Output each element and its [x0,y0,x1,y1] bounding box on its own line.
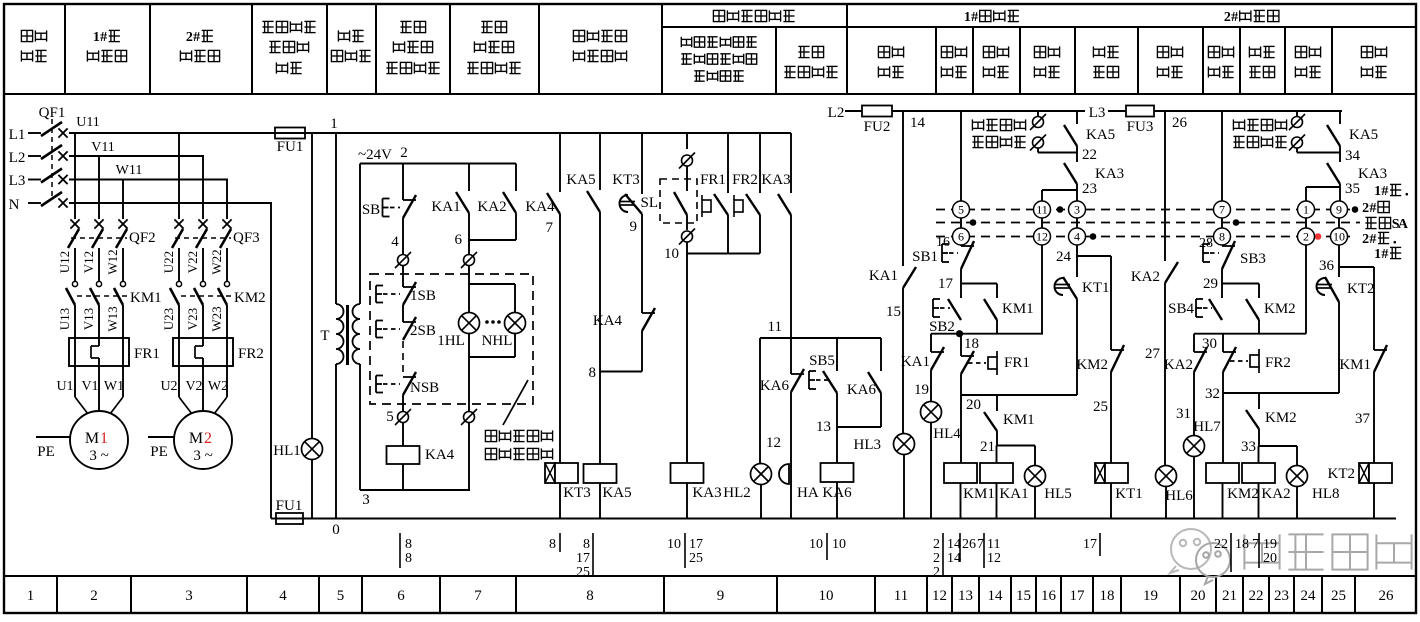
node 34 bar [1297,152,1340,154]
SA contact circle 10 [1331,228,1348,245]
continuation dash line between 2SB and NSB [402,341,404,376]
svg-text:W12: W12 [105,249,120,274]
svg-text:15: 15 [1016,588,1031,604]
motor M1 feed wires [74,366,76,372]
KA1 stop-indication branch wire 14 [902,111,904,266]
contactor NC KM2 interlock for KT1 [1110,256,1112,350]
svg-text:11: 11 [1036,203,1048,217]
pushbutton SB3 stop pump2 [1222,245,1235,247]
svg-text:FR2: FR2 [1265,355,1291,371]
HL1 branch wire [311,133,313,438]
SA row C dot mid [1090,233,1097,240]
svg-text:V22: V22 [185,251,200,273]
svg-text:KA5: KA5 [1086,127,1115,143]
QF2 feeder taps [74,133,76,219]
svg-text:6: 6 [958,230,964,244]
svg-text:23: 23 [1082,181,1097,197]
svg-text:U1: U1 [56,379,73,394]
svg-text:1: 1 [27,588,35,604]
contactor main contacts KM1 [72,281,77,286]
pushbutton 2SB [402,305,404,322]
svg-text:L3: L3 [9,173,26,189]
svg-text:33: 33 [1241,439,1256,455]
svg-text:KM1: KM1 [1003,412,1035,428]
node 29 bar [1222,283,1259,285]
svg-text:25: 25 [689,551,703,566]
svg-text:1: 1 [93,30,100,45]
header column lines [64,4,66,94]
transformer secondary top [359,164,361,305]
PE terminal of M1 [36,436,70,438]
ellipsis dots between lamps [485,320,489,324]
bracket over circles 1 9 [1306,186,1340,188]
svg-text:12: 12 [1036,230,1048,244]
svg-text:KA3: KA3 [1358,166,1387,182]
fire control center terminals pump1 [971,119,973,130]
svg-text:W11: W11 [116,163,143,178]
note: installed in hydrant boxes of each floor [485,430,496,441]
circuit breaker QF3 [174,219,183,228]
svg-text:FR2: FR2 [238,346,264,362]
svg-text:6: 6 [397,588,405,604]
svg-text:FR1: FR1 [1004,355,1030,371]
svg-text:HL7: HL7 [1193,419,1221,435]
svg-text:KM2: KM2 [234,290,266,306]
header sub column lines [775,27,777,94]
SA contact circle 3 [1069,201,1086,218]
svg-text:27: 27 [1145,346,1161,362]
svg-text:8: 8 [549,537,556,552]
wire from 12 down to node 18 [1041,245,1043,334]
SA row B dot right [1233,219,1240,226]
svg-text:FU3: FU3 [1127,119,1154,135]
svg-text:NSB: NSB [410,380,439,396]
relay coil KA2 [1258,446,1260,463]
svg-text:KA4: KA4 [425,447,455,463]
svg-text:KA1: KA1 [869,268,898,284]
svg-text:9: 9 [630,219,638,235]
svg-text:PE: PE [150,444,168,460]
svg-text:HL5: HL5 [1044,486,1072,502]
svg-text:13: 13 [958,588,973,604]
selector SA dashed row B [936,222,1360,224]
drop from FU3 to SA contacts 7 8 [1221,111,1223,201]
svg-text:N: N [9,197,20,213]
svg-text:KA6: KA6 [847,382,877,398]
svg-text:A: A [1398,217,1409,232]
svg-text:KA3: KA3 [761,172,790,188]
lamp HL3 [894,434,915,455]
terminal on wire 5 [398,412,409,423]
svg-text:KA1: KA1 [999,486,1028,502]
terminal below lamps [464,412,475,423]
relay coil KA6 [836,427,838,463]
svg-text:T: T [320,328,329,344]
svg-text:~24V: ~24V [358,147,392,163]
svg-text:FR2: FR2 [732,172,758,188]
svg-text:11: 11 [768,319,782,335]
svg-text:KA2: KA2 [1261,486,1290,502]
pushbutton SB4 start pump2 [1221,284,1223,299]
svg-text:36: 36 [1319,258,1335,274]
svg-text:HL4: HL4 [933,426,961,442]
SA contact circle 2 [1298,228,1315,245]
svg-text:26: 26 [1379,588,1395,604]
svg-text:W22: W22 [209,249,224,274]
SA row B dot [970,219,977,226]
svg-text:L2: L2 [9,150,26,166]
svg-text:KM2: KM2 [1076,357,1108,373]
svg-text:0: 0 [332,522,340,538]
svg-text:KA1: KA1 [431,199,460,215]
SA contact circle 12 [1034,228,1051,245]
fire hydrant dashed enclosure box [370,274,533,404]
svg-text:8: 8 [586,588,594,604]
svg-text:KA1: KA1 [901,354,930,370]
time delayed contact KT1 [1076,256,1078,277]
svg-text:L2: L2 [828,105,845,121]
svg-text:U2: U2 [160,379,177,394]
svg-text:10: 10 [809,537,823,552]
svg-text:L1: L1 [9,127,26,143]
svg-text:10: 10 [1333,230,1345,244]
svg-text:#: # [1381,184,1388,199]
24V bus [360,163,516,165]
lamp feed bar in hydrant box [469,283,515,285]
svg-text:34: 34 [1345,148,1361,164]
node 18 junction dot [956,330,963,337]
svg-text:12: 12 [987,551,1001,566]
relay contact KA6 NC [790,338,792,374]
pushbutton SB2 start pump1 [960,284,962,299]
callout line to hydrant box note [503,380,528,425]
svg-text:10: 10 [819,588,834,604]
svg-text:U22: U22 [161,251,176,273]
lamp HL4 [921,402,942,423]
SA row C red dot [1315,233,1322,240]
svg-text:4: 4 [279,588,287,604]
svg-text:21: 21 [980,439,995,455]
svg-text:16: 16 [936,235,950,250]
circuit breaker QF2 [70,219,79,228]
watermark text dianGong zhi jia [1243,534,1245,569]
svg-text:PE: PE [37,444,55,460]
svg-text:11: 11 [987,537,1000,552]
svg-text:20: 20 [1263,551,1277,566]
contactor coil KM2 [1206,463,1239,483]
terminal on wire 4 [398,255,409,266]
time relay coil KT3 [545,463,555,483]
svg-text:#: # [193,30,200,45]
svg-text:2SB: 2SB [410,323,436,339]
svg-text:W2: W2 [208,379,228,394]
svg-text:1: 1 [1374,247,1381,262]
bottom control bus node 0 [271,518,1396,520]
svg-text:25: 25 [576,565,590,580]
svg-text:KT2: KT2 [1347,281,1375,297]
contactor aux contact KM1 self hold [996,284,998,299]
SA contact circle 9 [1331,201,1348,218]
svg-text:QF2: QF2 [129,230,156,246]
svg-text:12: 12 [932,588,947,604]
KA2 stop-indication branch wire 26 [1164,111,1166,261]
svg-text:19: 19 [1143,588,1158,604]
svg-text:HL6: HL6 [1165,488,1193,504]
QF3 feeder taps [178,133,180,219]
lamp 1HL [468,284,470,312]
svg-text:5: 5 [958,203,964,217]
svg-text:KM1: KM1 [1339,357,1371,373]
svg-text:22: 22 [1214,537,1228,552]
svg-text:M: M [85,430,99,447]
node 8 bar [600,371,642,373]
svg-text:M: M [189,430,203,447]
svg-text:U11: U11 [76,115,100,130]
relay coil KA1 [996,446,998,464]
svg-text:3: 3 [1074,203,1080,217]
svg-text:KA5: KA5 [602,485,631,501]
svg-text:24: 24 [1056,249,1072,265]
svg-text:KM1: KM1 [1002,301,1034,317]
svg-text:KT1: KT1 [1115,486,1143,502]
node 21 bar [997,445,1035,447]
svg-text:SB5: SB5 [809,353,835,369]
L1 bus wire [69,132,791,134]
fuse FU1 top [275,128,305,139]
join bar below KA1 KA2 [468,213,470,240]
svg-text:V12: V12 [81,251,96,273]
svg-text:2: 2 [400,145,408,161]
lamp HL7 [1184,436,1205,457]
svg-text:KT3: KT3 [563,485,591,501]
svg-text:V1: V1 [81,379,98,394]
svg-text:7: 7 [1252,537,1259,552]
svg-text:17: 17 [689,537,703,552]
node 24 bar [1077,255,1111,257]
header group: sound-light alarm loop [713,10,724,21]
thermal relay contact FR2 NC [1222,334,1224,352]
svg-text:L3: L3 [1089,105,1106,121]
svg-text:14: 14 [947,537,961,552]
SA contact circle 5 [953,201,970,218]
svg-text:SB4: SB4 [1168,301,1194,317]
svg-text:FU1: FU1 [276,498,303,514]
svg-text:8: 8 [405,551,412,566]
svg-text:18: 18 [964,336,979,352]
header cell labels [21,30,32,41]
svg-text:KM1: KM1 [963,486,995,502]
svg-text:12: 12 [766,435,781,451]
svg-text:HA: HA [797,485,819,501]
bottom number row top line [4,575,1416,577]
svg-text:8: 8 [1219,230,1225,244]
svg-text:KA5: KA5 [1349,127,1378,143]
svg-text:2: 2 [186,30,193,45]
lamp HL1 [302,439,323,460]
node 32 bar [1223,392,1339,394]
svg-text:7: 7 [977,537,984,552]
relay contact KA2 fault NC [1193,334,1195,352]
svg-text:10: 10 [832,537,846,552]
pushbutton SB [402,164,404,201]
pushbutton SB1 stop pump1 [960,245,962,246]
svg-text:29: 29 [1203,276,1218,292]
svg-text:#: # [1369,232,1376,247]
svg-text:U23: U23 [161,308,176,330]
svg-text:KA4: KA4 [525,199,555,215]
svg-text:FR1: FR1 [700,172,726,188]
header group split line [662,26,1416,28]
svg-text:SB2: SB2 [929,319,955,335]
svg-text:FU2: FU2 [864,119,891,135]
svg-text:SB: SB [362,202,380,218]
svg-text:SB1: SB1 [912,249,938,265]
SA contact circle 7 [1214,201,1231,218]
svg-text:8: 8 [583,537,590,552]
lamp HL8 [1296,446,1298,465]
svg-text:KM2: KM2 [1264,301,1296,317]
svg-text:30: 30 [1202,336,1217,352]
SA contact circle 8 [1214,228,1231,245]
watermark bubbles [1170,529,1211,573]
svg-text:#: # [100,30,107,45]
svg-text:17: 17 [576,551,590,566]
contactor NC KM1 interlock for KT2 [1373,267,1375,350]
svg-text:16: 16 [1041,588,1057,604]
svg-text:8: 8 [589,365,597,381]
svg-text:1: 1 [1303,203,1309,217]
svg-text:HL8: HL8 [1312,486,1340,502]
SA contact circle 1 [1298,201,1315,218]
svg-text:25: 25 [1331,588,1346,604]
PE terminal of M2 [148,436,174,438]
node 11 bar [760,337,881,339]
svg-text:W13: W13 [105,306,120,331]
svg-text:KA2: KA2 [1131,269,1160,285]
node 13 bar [837,426,881,428]
svg-text:17: 17 [938,276,954,292]
transformer primary bottom to node 0 [335,364,337,519]
svg-text:17: 17 [1083,537,1097,552]
node 20 bar [961,394,1077,396]
svg-text:2: 2 [204,430,212,447]
svg-text:3: 3 [185,588,193,604]
svg-text:KT1: KT1 [1082,280,1110,296]
svg-text:KM2: KM2 [1265,410,1297,426]
svg-text:KA2: KA2 [477,199,506,215]
svg-text:7: 7 [1219,203,1225,217]
main switch QF1 [28,132,41,134]
svg-text:14: 14 [988,588,1004,604]
svg-text:KM2: KM2 [1227,486,1259,502]
lamp HL5 [1034,446,1036,466]
svg-text:1: 1 [964,10,971,25]
svg-text:4: 4 [1074,230,1080,244]
relay contact KA3 pump2 auto [1327,163,1340,184]
thermal overload relay FR2 [173,338,233,366]
svg-text:U13: U13 [57,308,72,330]
lamp NHL [514,284,516,312]
wire from 10 to node 36 [1338,245,1340,267]
N wire [69,202,272,204]
svg-text:FU1: FU1 [277,139,304,155]
N drop to bottom bus [270,203,272,519]
svg-text:9: 9 [717,588,725,604]
svg-text:V2: V2 [185,379,202,394]
svg-text:4: 4 [391,234,399,250]
svg-text:#: # [1369,201,1376,216]
node 3 bus [360,489,470,491]
fuse FU1 bottom [276,513,303,524]
thermal overload relay FR1 [69,338,129,366]
svg-text:W23: W23 [209,306,224,331]
relay coil KA3 [671,463,704,483]
svg-text:SB3: SB3 [1240,251,1266,267]
svg-text:19: 19 [1263,537,1277,552]
svg-text:22: 22 [1249,588,1264,604]
svg-text:7: 7 [546,220,554,236]
horn HA [779,464,789,484]
node 17 bar [961,283,997,285]
svg-text:23: 23 [1274,588,1289,604]
node 36 bar [1339,266,1374,268]
svg-text:3 ~: 3 ~ [89,448,108,464]
bracket over circles 11 3 [1042,189,1077,191]
svg-text:KA2: KA2 [1164,357,1193,373]
svg-text:21: 21 [1222,588,1237,604]
relay contact KA1 24V [468,164,470,192]
contactor aux contact KM2 self hold [1258,284,1260,299]
water level signal branch with terminals [686,133,688,149]
svg-text:KT3: KT3 [612,172,640,188]
drop from FU2 to SA contacts 5 6 [960,111,962,201]
svg-text:2: 2 [1362,201,1369,216]
svg-text:2: 2 [933,551,940,566]
svg-text:KA5: KA5 [566,172,595,188]
fire control center terminals pump2 [1232,119,1234,130]
svg-text:KM1: KM1 [130,290,162,306]
svg-text:W1: W1 [104,379,124,394]
contactor main contacts KM2 [176,281,181,286]
svg-text:32: 32 [1205,386,1220,402]
svg-text:3: 3 [362,492,370,508]
SA row A dot mid [1057,206,1064,213]
svg-text:1: 1 [100,430,108,447]
svg-text:FR1: FR1 [134,346,160,362]
svg-text:35: 35 [1345,181,1360,197]
header sub cell labels [680,37,682,47]
svg-text:3 ~: 3 ~ [193,448,212,464]
relay contact KA5 pump2 auto [1339,111,1341,124]
svg-text:KT2: KT2 [1328,466,1356,482]
thermal relay contact FR1 NC [960,334,962,356]
svg-text:2: 2 [90,588,98,604]
svg-text:25: 25 [1093,399,1108,415]
fuse FU2 [845,110,862,112]
motor M1 [70,411,128,469]
svg-text:20: 20 [1191,588,1206,604]
contactor coil KM1 [944,463,977,483]
svg-text:37: 37 [1355,411,1371,427]
svg-text:1HL: 1HL [437,333,465,349]
svg-text:2: 2 [933,537,940,552]
svg-text:V23: V23 [185,308,200,330]
svg-text:26: 26 [1172,115,1188,131]
relay contact KA5 pump1 auto [1076,111,1078,124]
svg-text:5: 5 [386,409,394,425]
svg-text:KA4: KA4 [593,313,623,329]
svg-text:22: 22 [1082,147,1097,163]
